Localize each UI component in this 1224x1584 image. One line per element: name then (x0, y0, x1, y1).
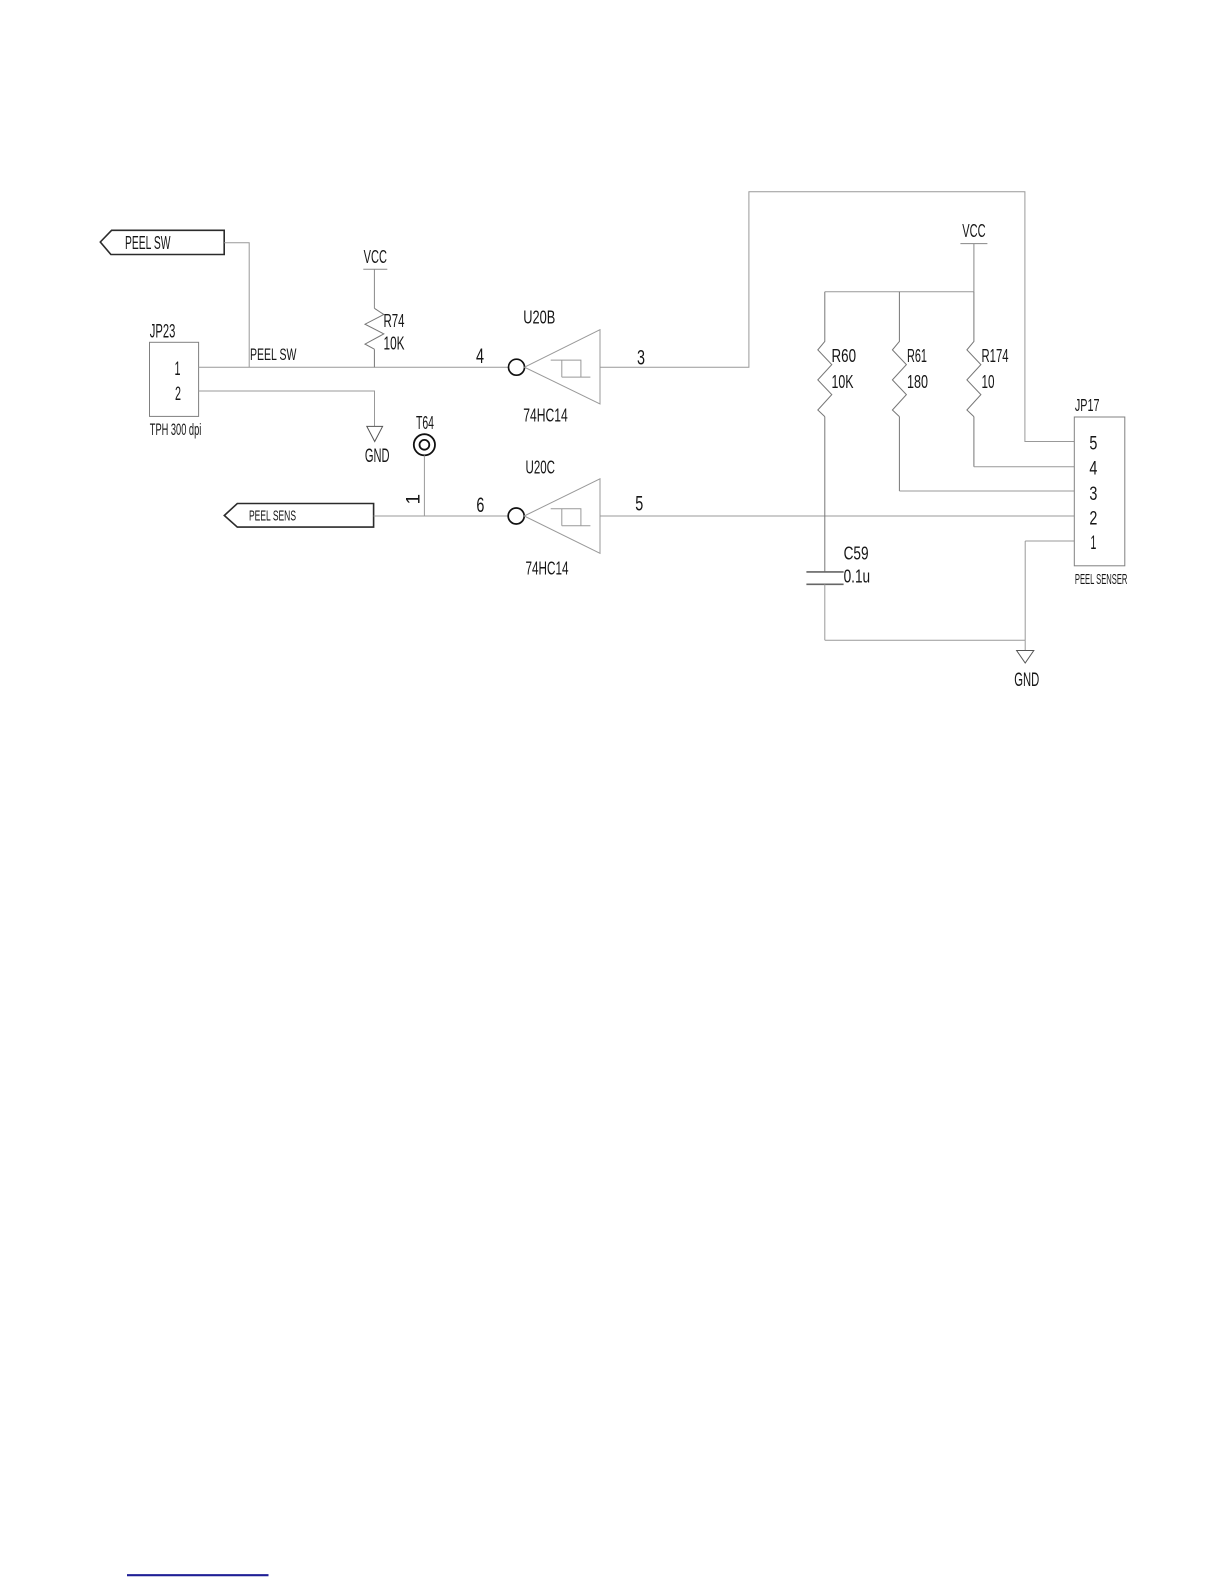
svg-text:10: 10 (982, 372, 995, 392)
op-amp U20B (schmitt inverter) (509, 307, 601, 426)
capacitor C59 (806, 544, 870, 641)
svg-text:4: 4 (476, 345, 484, 368)
svg-text:5: 5 (635, 493, 643, 516)
svg-text:GND: GND (1014, 669, 1039, 691)
svg-text:2: 2 (175, 383, 181, 405)
svg-text:180: 180 (907, 372, 928, 392)
svg-text:PEEL SW: PEEL SW (125, 233, 171, 253)
wire JP23 pin1 to U20B input (199, 366, 509, 368)
svg-text:10K: 10K (384, 334, 405, 354)
power VCC (right) (960, 221, 987, 292)
svg-text:GND: GND (365, 445, 390, 467)
svg-text:1: 1 (404, 494, 425, 505)
svg-text:1: 1 (1090, 533, 1096, 554)
test point T64 (414, 413, 435, 455)
svg-text:T64: T64 (416, 413, 434, 433)
svg-text:3: 3 (1089, 484, 1097, 505)
svg-text:5: 5 (1089, 433, 1097, 454)
svg-text:JP17: JP17 (1075, 395, 1100, 415)
svg-text:PEEL SENSER: PEEL SENSER (1075, 571, 1128, 588)
svg-text:10K: 10K (832, 372, 854, 392)
wire U20C output to JP17 pin2 (600, 515, 1074, 517)
svg-text:VCC: VCC (364, 247, 387, 267)
resistor R60 (818, 292, 856, 572)
svg-text:1: 1 (175, 358, 181, 380)
op-amp U20C (schmitt inverter) (508, 457, 600, 579)
wire R174 to JP17 pin4 (974, 466, 1074, 468)
wire U20B output to JP17 pin5 (600, 192, 1074, 442)
wire PEEL SENS flag to U20C input (374, 515, 509, 517)
ground GND (right) (1014, 640, 1039, 691)
svg-text:2: 2 (1089, 508, 1097, 529)
ground GND (left) (365, 426, 390, 467)
svg-text:TPH 300 dpi: TPH 300 dpi (150, 421, 202, 439)
svg-text:PEEL SW: PEEL SW (250, 345, 296, 364)
svg-text:R174: R174 (982, 346, 1009, 366)
resistor R61 (892, 292, 928, 491)
svg-text:R61: R61 (907, 346, 927, 366)
net flag PEEL SW (100, 230, 224, 254)
connector JP17 (1074, 395, 1127, 588)
net flag PEEL SENS (224, 504, 373, 528)
svg-text:4: 4 (1089, 459, 1097, 480)
resistor R74 (365, 308, 405, 367)
svg-text:VCC: VCC (962, 221, 985, 241)
wire flag PEEL SW to pin1 net (224, 243, 249, 367)
svg-text:JP23: JP23 (150, 321, 176, 343)
svg-text:C59: C59 (844, 544, 869, 564)
svg-text:U20C: U20C (526, 457, 556, 478)
svg-text:74HC14: 74HC14 (523, 405, 568, 426)
wire C59 bottom to GND/JP17 pin1 (825, 541, 1075, 640)
wire T64 to PEEL SENS net (423, 455, 425, 516)
resistor R174 (967, 292, 1009, 467)
svg-text:0.1u: 0.1u (844, 567, 871, 587)
svg-text:R60: R60 (832, 346, 857, 366)
svg-text:3: 3 (637, 347, 645, 370)
footer link underline (127, 1574, 269, 1576)
wire JP23 pin2 to ground (199, 391, 375, 426)
svg-text:U20B: U20B (523, 307, 555, 328)
svg-text:74HC14: 74HC14 (526, 558, 569, 579)
svg-text:PEEL SENS: PEEL SENS (249, 509, 296, 525)
connector JP23 (150, 321, 202, 440)
wire VCC bus (825, 291, 974, 293)
svg-text:R74: R74 (384, 311, 405, 331)
svg-text:6: 6 (476, 494, 484, 517)
wire R61 to JP17 pin3 (899, 490, 1074, 492)
power VCC (left) (363, 247, 387, 308)
